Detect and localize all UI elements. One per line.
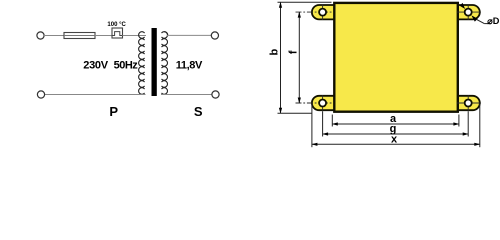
wire terminal to fuse bbox=[44, 35, 64, 37]
terminal top-left bbox=[37, 32, 44, 39]
dimension b line bbox=[278, 2, 332, 114]
terminal top-right bbox=[211, 32, 218, 39]
hole centerlines bottom-right bbox=[457, 95, 481, 111]
wire fuse to thermal fuse bbox=[95, 35, 112, 37]
svg-text:⌀D: ⌀D bbox=[487, 16, 500, 26]
hole centerlines top-right bbox=[457, 4, 481, 20]
transformer T1 primary winding bbox=[139, 32, 145, 95]
transformer body bbox=[334, 3, 458, 112]
fuse F1 bbox=[64, 33, 95, 39]
svg-text:x: x bbox=[391, 134, 398, 146]
svg-text:100 °C: 100 °C bbox=[107, 22, 126, 28]
transformer T1 secondary winding bbox=[162, 32, 168, 95]
dimension x line bbox=[311, 104, 480, 147]
mounting ear top-left bbox=[312, 5, 337, 19]
wire bottom primary bbox=[45, 94, 146, 96]
hole bottom-left bbox=[319, 100, 326, 107]
terminal bottom-left bbox=[37, 91, 44, 98]
hole centerlines bottom-left bbox=[296, 95, 332, 111]
hole top-right bbox=[465, 9, 472, 16]
wire thermal fuse to primary winding bbox=[123, 35, 147, 37]
dimension a line bbox=[332, 115, 460, 127]
transformer core bbox=[152, 28, 157, 96]
svg-text:50Hz: 50Hz bbox=[114, 60, 139, 72]
terminal bottom-right bbox=[212, 91, 219, 98]
dimension f line bbox=[298, 12, 301, 104]
hole centerlines top-left bbox=[296, 4, 332, 20]
mounting ear bottom-right bbox=[455, 96, 480, 110]
wire secondary top to terminal bbox=[167, 34, 212, 36]
svg-text:230V: 230V bbox=[83, 60, 108, 72]
thermal fuse (100 °C) bbox=[112, 28, 123, 38]
svg-text:f: f bbox=[287, 50, 299, 54]
mounting ear bottom-left bbox=[312, 96, 337, 110]
hole bottom-right bbox=[465, 100, 472, 107]
mounting ear top-right bbox=[455, 5, 480, 19]
svg-text:P: P bbox=[109, 104, 118, 119]
svg-text:11,8V: 11,8V bbox=[176, 60, 203, 72]
dimension g line bbox=[322, 111, 469, 136]
hole top-left bbox=[319, 9, 326, 16]
diameter D leader and arrows bbox=[460, 3, 492, 24]
svg-text:b: b bbox=[269, 48, 281, 55]
svg-text:S: S bbox=[194, 104, 203, 119]
wire bottom secondary bbox=[161, 94, 212, 96]
